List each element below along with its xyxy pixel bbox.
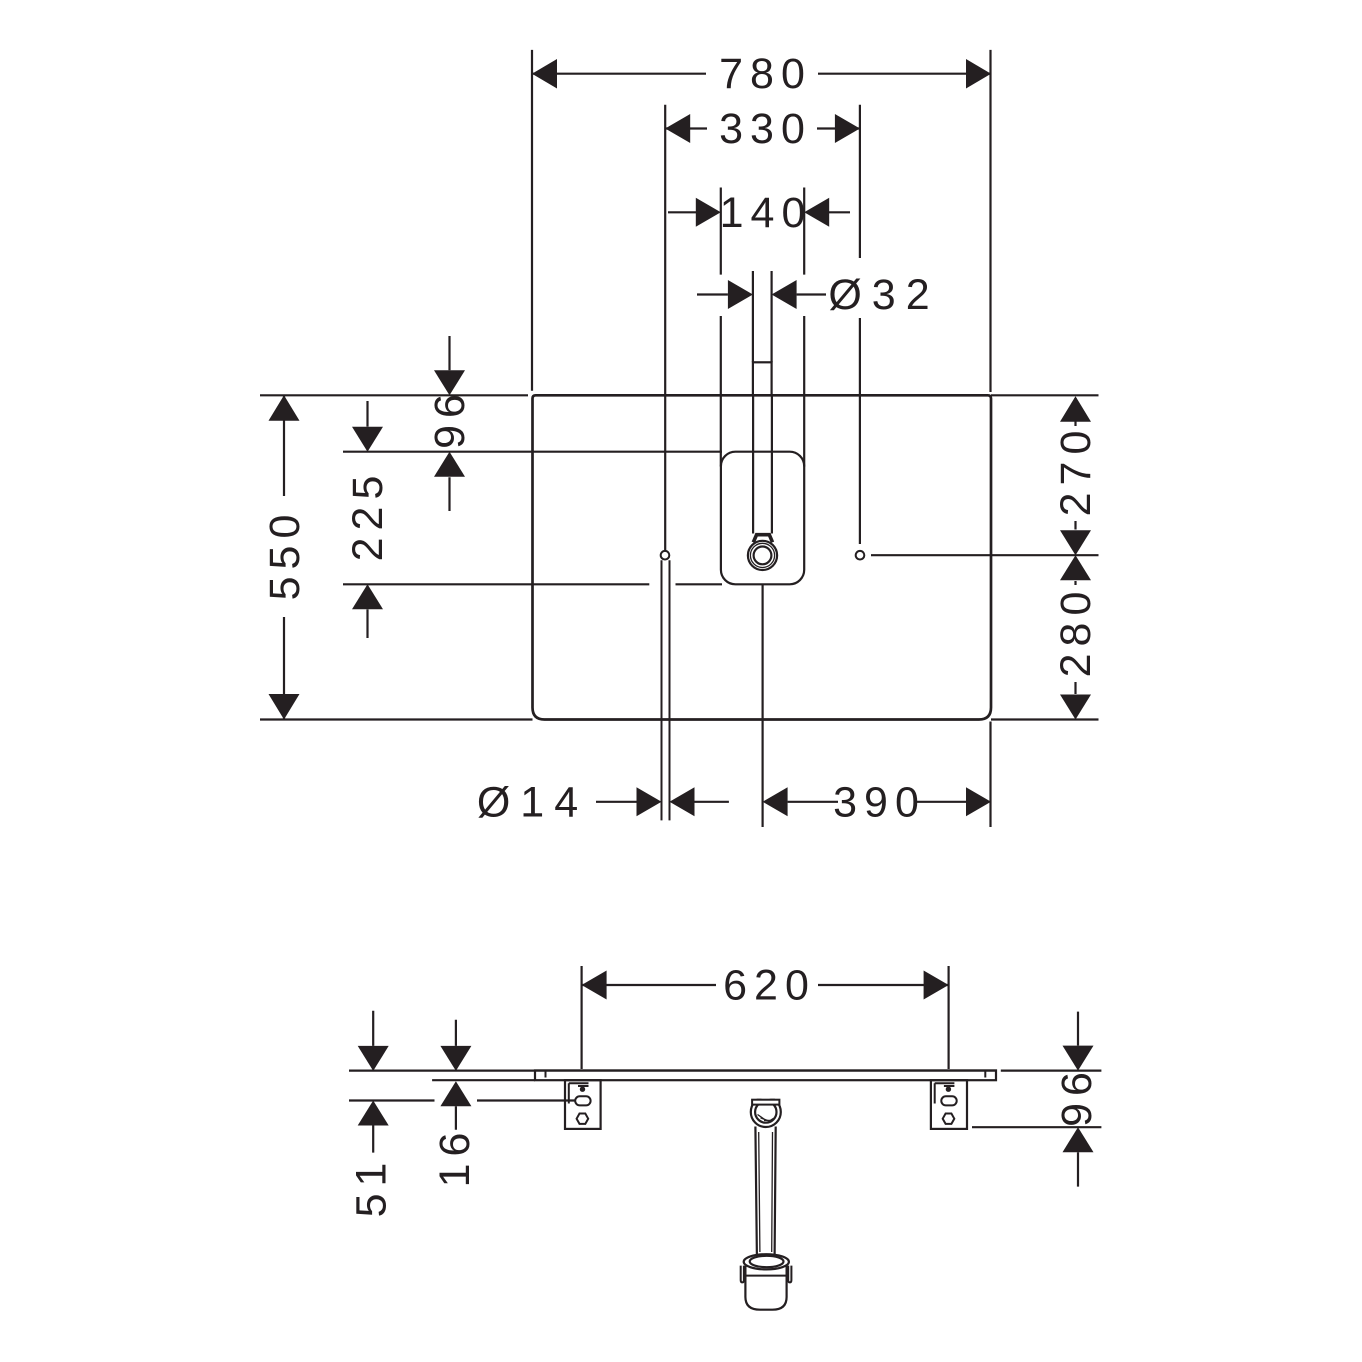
- countertop bottom edge left extension: [260, 718, 533, 720]
- drain outer circle: [748, 541, 777, 570]
- arrow d14 left: [637, 787, 662, 816]
- trap cup rim outer: [744, 1254, 789, 1269]
- arrow 16 bottom: [440, 1081, 471, 1106]
- arrow 330 right: [835, 114, 860, 143]
- clamp ring top mask: [748, 1093, 785, 1099]
- arrow 550 bottom: [269, 694, 300, 720]
- extension line 140 left: [720, 188, 722, 467]
- line 225 boundary (basin bottom edge extended): [343, 583, 722, 585]
- drain tailpipe flange: [752, 1100, 779, 1105]
- arrow 780 right: [966, 59, 991, 89]
- extension line 330 left: [664, 105, 666, 551]
- svg-text:140: 140: [720, 189, 813, 237]
- dimension 390 line: [788, 801, 966, 803]
- dimension 550 line: [283, 395, 285, 719]
- arrow d32 left: [728, 280, 753, 309]
- trap cup tab right: [788, 1266, 791, 1283]
- drain middle circle: [750, 543, 774, 567]
- svg-text:330: 330: [719, 105, 812, 153]
- arrow 780 left: [532, 59, 557, 89]
- svg-text:96: 96: [1053, 1065, 1101, 1127]
- arrow 330 left: [665, 114, 690, 143]
- svg-text:780: 780: [719, 50, 812, 98]
- extension line 620 right: [947, 966, 949, 1069]
- slab top edge right extension: [1001, 1069, 1102, 1071]
- svg-text:620: 620: [723, 962, 816, 1010]
- slab top edge thick line: [535, 1069, 996, 1071]
- right mounting bracket: [931, 1080, 967, 1129]
- arrow 225 bottom: [352, 584, 383, 609]
- dimension 270/280 line: [1074, 398, 1076, 694]
- slab bottom edge left extension: [432, 1079, 535, 1081]
- svg-text:Ø14: Ø14: [477, 778, 588, 826]
- svg-text:280: 280: [1052, 585, 1100, 678]
- dimension d14 tails: [596, 801, 729, 803]
- svg-text:225: 225: [344, 469, 392, 562]
- dimension line 780: [532, 73, 991, 75]
- trap cup weld line: [746, 1275, 786, 1277]
- arrow 280 bottom: [1060, 695, 1091, 720]
- trap cup tab left: [741, 1266, 744, 1283]
- arrow 16 top: [440, 1046, 471, 1071]
- drain inner circle: [754, 547, 772, 565]
- faucet hole rectangle: [753, 362, 772, 395]
- arrow 96b top: [1063, 1046, 1094, 1071]
- arrow d32 right: [772, 280, 797, 309]
- faucet hole upper extension lines: [753, 271, 772, 362]
- svg-text:390: 390: [833, 778, 926, 826]
- drain pipe inner shading lines: [759, 1132, 773, 1252]
- hole circle left: [661, 551, 670, 560]
- extension line 330 right: [859, 105, 861, 544]
- countertop outline (top view): [533, 395, 992, 719]
- dimension line 330: [665, 127, 860, 129]
- slab end notch left: [545, 1070, 547, 1077]
- countertop slab (side view): [535, 1070, 996, 1080]
- drain pipe clamp ring inner: [755, 1101, 776, 1122]
- arrow 390 right: [966, 787, 991, 816]
- bracket bottom right extension: [972, 1126, 1101, 1128]
- arrow 225 top: [352, 427, 383, 452]
- basin inner rounded cutout: [721, 452, 804, 585]
- arrow 270 top: [1060, 396, 1091, 422]
- svg-text:550: 550: [261, 508, 309, 601]
- drain pipe clamp ring outer: [751, 1097, 781, 1127]
- dimension line diameter 32 tails: [697, 293, 826, 295]
- arrow 51 bottom: [358, 1101, 389, 1126]
- clamp ring hatch shading: [758, 1115, 774, 1122]
- trap cup rim inner: [750, 1256, 784, 1267]
- arrow 140 right: [804, 198, 829, 227]
- extension line 620 left: [580, 966, 582, 1069]
- svg-text:51: 51: [348, 1156, 396, 1218]
- slab end notch right: [984, 1070, 986, 1077]
- dimension line 620: [582, 984, 949, 986]
- faucet lines through basin: [753, 395, 772, 533]
- arrow 550 top: [269, 395, 300, 421]
- hole diameter 14 extension lines: [662, 560, 670, 820]
- dimension 96 arrows: [448, 336, 450, 511]
- dimension line 140 tails: [668, 211, 850, 213]
- svg-text:Ø32: Ø32: [828, 271, 939, 319]
- hole circle right: [856, 551, 865, 560]
- drain pipe: [755, 1127, 775, 1257]
- arrow 620 right: [924, 971, 949, 1000]
- arrow 96b bottom: [1063, 1127, 1094, 1152]
- hole axis line to right dimension: [871, 554, 1099, 556]
- arrow 51 top: [358, 1046, 389, 1071]
- bracket screw axis extension line: [349, 1099, 575, 1101]
- arrow 96 top: [434, 370, 465, 395]
- countertop top edge left extension: [260, 394, 528, 396]
- arrow 270 bottom: [1060, 530, 1091, 555]
- extension line 140 right: [803, 188, 805, 467]
- svg-text:270: 270: [1052, 424, 1100, 517]
- arrow 620 left: [582, 971, 607, 1000]
- extension line 780 left: [531, 50, 533, 391]
- extension line 780 right / countertop right edge extension: [989, 50, 991, 827]
- trap cup body: [745, 1266, 786, 1310]
- dimension 96 right arrows: [1077, 1012, 1079, 1187]
- countertop bottom edge right extension: [991, 718, 1099, 720]
- left mounting bracket: [565, 1080, 601, 1129]
- arrow 390 left: [763, 787, 788, 816]
- dimension 16 arrows: [455, 1020, 457, 1130]
- svg-text:16: 16: [431, 1126, 479, 1188]
- arrow 140 left: [696, 198, 721, 227]
- countertop top edge right extension: [991, 394, 1099, 396]
- slab top edge left extension: [349, 1069, 535, 1071]
- drain axis extension line: [761, 584, 763, 827]
- arrow d14 right: [670, 787, 695, 816]
- dimension 51 arrows: [372, 1011, 374, 1153]
- drain clamp: [753, 535, 772, 543]
- arrow 96 bottom: [434, 452, 465, 477]
- line 96 boundary (basin top edge extended): [343, 451, 722, 453]
- arrow 280 top: [1060, 555, 1091, 580]
- dimension 225 arrows: [366, 401, 368, 638]
